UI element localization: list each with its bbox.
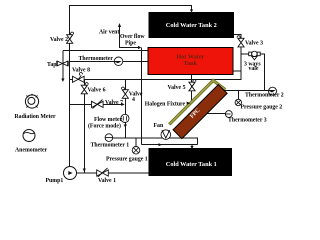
fan symbol bbox=[161, 130, 171, 140]
radiation meter bbox=[25, 94, 38, 108]
wire valve5 branch bbox=[191, 75, 193, 102]
wire tap branch bbox=[62, 51, 64, 80]
thermometer1 circle bbox=[105, 134, 113, 142]
wire thermometer3 line bbox=[207, 113, 226, 115]
valve V5 bbox=[189, 80, 196, 91]
wire pump outlet to tank1 bbox=[77, 172, 149, 174]
wire line1 to hot water tank bbox=[63, 50, 148, 52]
thermometer3 circle bbox=[225, 111, 232, 118]
wire line2 thermometer to hot water tank bbox=[70, 60, 148, 62]
tank2 cold water tank 2 bbox=[149, 12, 235, 38]
svg-text:Valve 2: Valve 2 bbox=[50, 37, 68, 43]
thermometer2 circle bbox=[269, 87, 277, 95]
svg-text:Cold Water Tank 2: Cold Water Tank 2 bbox=[166, 22, 217, 29]
valve V2 bbox=[67, 32, 74, 43]
wire top feed to tank2 bbox=[70, 6, 192, 51]
arrow tap outlet down bbox=[61, 79, 64, 83]
svg-text:Fan: Fan bbox=[154, 123, 164, 129]
arrow valve6 branch down bbox=[83, 169, 86, 173]
3-way valve bbox=[249, 51, 261, 60]
svg-text:Tap: Tap bbox=[47, 62, 56, 68]
svg-text:Valve 5: Valve 5 bbox=[168, 85, 186, 91]
valve V8 bbox=[73, 72, 85, 82]
svg-text:Pressure gauge 2: Pressure gauge 2 bbox=[241, 105, 283, 111]
wire hot tank right outlet bbox=[233, 70, 241, 72]
svg-text:Thermometer 1: Thermometer 1 bbox=[91, 142, 130, 148]
svg-text:(Force mode): (Force mode) bbox=[88, 123, 121, 130]
svg-text:Halogen Fixture: Halogen Fixture bbox=[145, 101, 186, 107]
arrow overflow right bbox=[138, 46, 141, 49]
wire lower collector line into tank1 bbox=[142, 144, 198, 146]
wire fpc outlet line bbox=[224, 90, 269, 92]
svg-text:Radiation Meter: Radiation Meter bbox=[15, 114, 56, 120]
svg-text:Valve 1: Valve 1 bbox=[98, 178, 116, 184]
wire valve6 branch down bbox=[83, 79, 85, 172]
pump P1 bbox=[64, 167, 77, 180]
arrow flow meter down bbox=[124, 125, 127, 128]
valve V1 bbox=[97, 168, 109, 177]
wire thermometer1 line to collector bottom bbox=[109, 138, 198, 145]
wire air vent / overflow pipe bbox=[120, 27, 139, 48]
wire valve4 flow-meter branch bbox=[124, 79, 126, 138]
svg-text:Over flow: Over flow bbox=[120, 34, 145, 40]
arrow valve7 line right bbox=[121, 103, 124, 106]
svg-text:Flow meter: Flow meter bbox=[94, 117, 123, 123]
hot water tank bbox=[148, 48, 233, 75]
svg-text:Valve 7: Valve 7 bbox=[105, 100, 123, 106]
svg-text:4: 4 bbox=[132, 97, 135, 103]
wire main left pipe down to pump bbox=[69, 6, 71, 167]
thermometer (top) circle bbox=[114, 57, 123, 66]
svg-text:Valve 6: Valve 6 bbox=[88, 88, 106, 94]
svg-text:Pump1: Pump1 bbox=[46, 178, 64, 184]
valve V6 bbox=[81, 83, 88, 94]
collector FPC bbox=[173, 85, 227, 139]
svg-text:vale: vale bbox=[249, 66, 259, 72]
svg-text:Anemometer: Anemometer bbox=[15, 147, 48, 153]
svg-text:Tank: Tank bbox=[184, 60, 198, 67]
valve V7 bbox=[92, 100, 104, 109]
tank1 cold water tank 1 bbox=[149, 148, 233, 176]
arrow air vent up bbox=[118, 23, 121, 27]
tap symbol bbox=[57, 61, 68, 66]
pressure gauge2 bbox=[235, 99, 241, 105]
valve V4 bbox=[121, 87, 128, 98]
svg-text:Cold Water Tank 1: Cold Water Tank 1 bbox=[166, 161, 217, 168]
svg-text:Thermometer 2: Thermometer 2 bbox=[245, 93, 284, 99]
arrow tank1 inlet down bbox=[190, 146, 193, 149]
wire 3-way line bbox=[241, 54, 265, 90]
svg-text:Valve 3: Valve 3 bbox=[245, 40, 263, 46]
wire fan stem bbox=[165, 138, 167, 139]
svg-text:Air vent: Air vent bbox=[99, 30, 119, 36]
svg-text:Thermometer 3: Thermometer 3 bbox=[228, 118, 267, 124]
wire valve8 long line bbox=[70, 35, 241, 80]
wire valve7 line bbox=[70, 103, 123, 105]
svg-text:Valve 8: Valve 8 bbox=[72, 68, 90, 74]
svg-text:Pressure gauge 1: Pressure gauge 1 bbox=[106, 156, 148, 162]
wire pressure gauge2 stub bbox=[237, 91, 239, 100]
svg-text:Thermometer: Thermometer bbox=[79, 56, 114, 62]
arrow lower line right bbox=[159, 143, 162, 146]
wire tank1 inlet bbox=[191, 145, 193, 147]
wire pressure gauge1 stub bbox=[135, 138, 137, 147]
wire long overflow vertical bbox=[141, 48, 143, 145]
svg-text:Valve: Valve bbox=[129, 92, 143, 98]
valve V3 bbox=[237, 36, 244, 47]
flow meter circle bbox=[121, 114, 129, 122]
halogen fixture bar bbox=[169, 81, 225, 125]
anemometer bbox=[23, 130, 35, 142]
arrow into tank2 top bbox=[190, 10, 193, 13]
svg-text:Pipe: Pipe bbox=[125, 41, 136, 47]
pressure gauge1 bbox=[132, 147, 140, 155]
